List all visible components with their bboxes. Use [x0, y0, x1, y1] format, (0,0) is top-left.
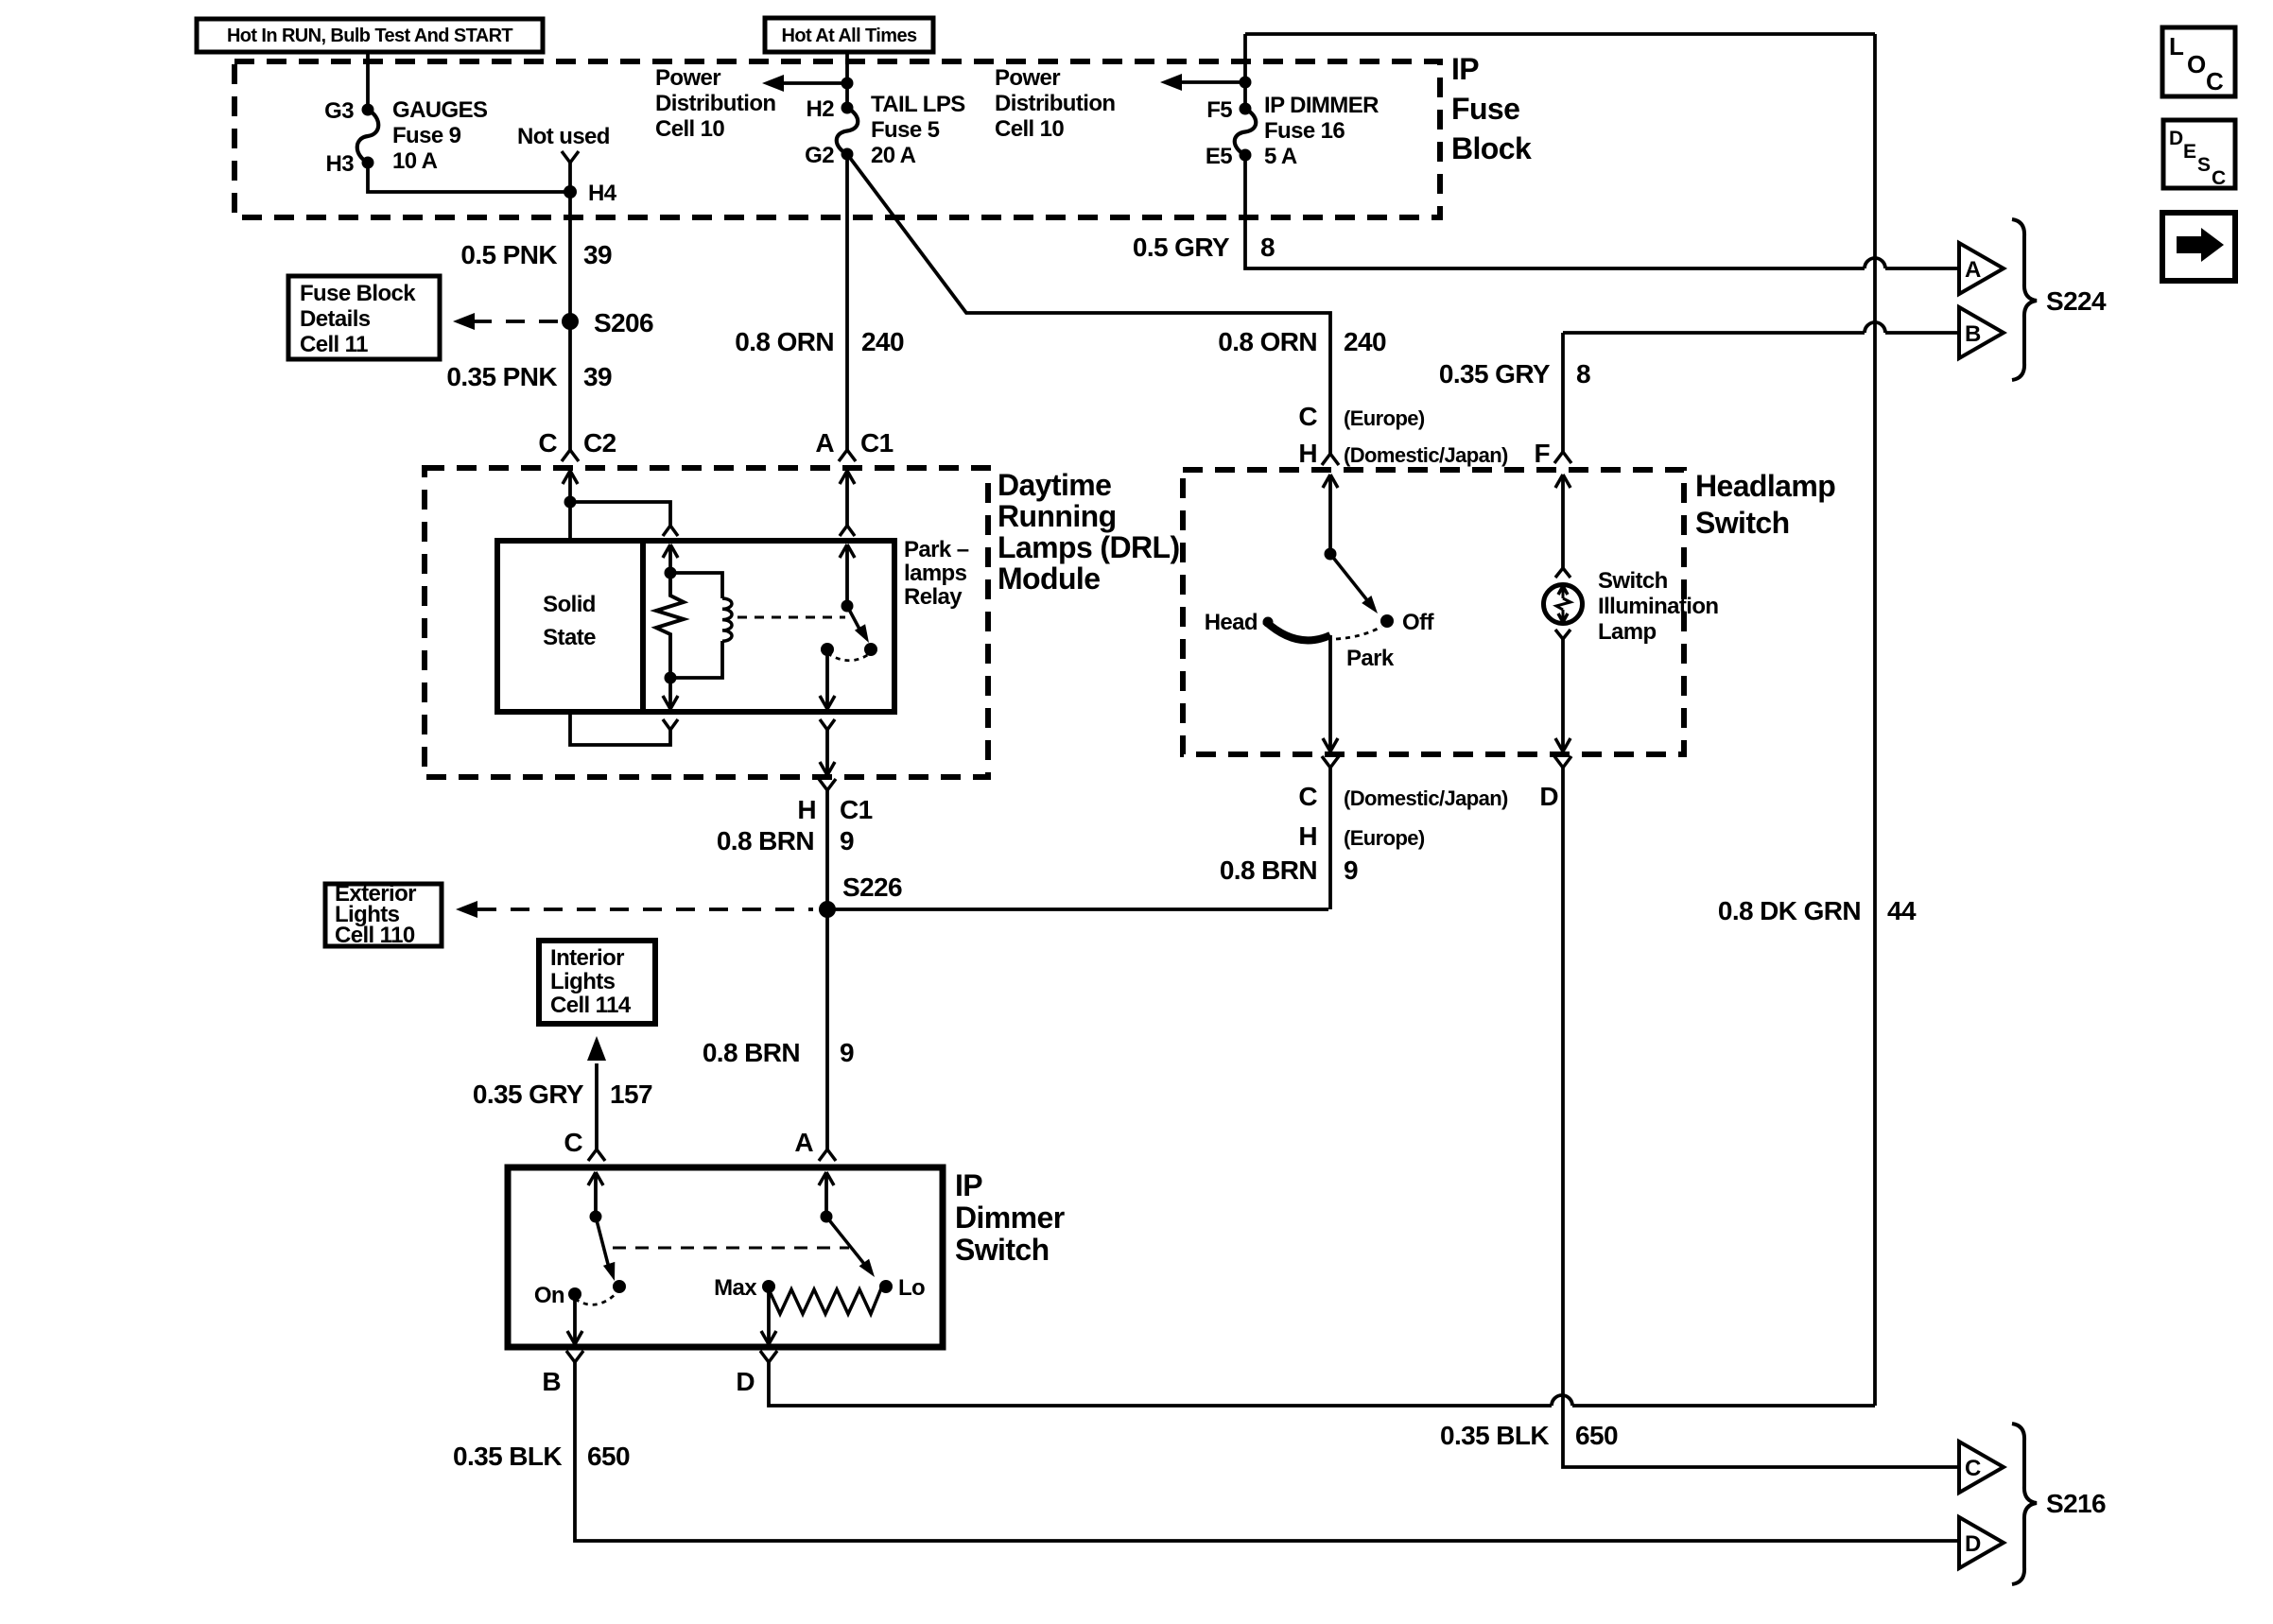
svg-text:650: 650	[587, 1442, 630, 1471]
svg-text:H: H	[1298, 821, 1317, 851]
svg-text:0.8 DK GRN: 0.8 DK GRN	[1718, 896, 1861, 925]
svg-text:Lamp: Lamp	[1598, 619, 1657, 645]
svg-text:Max: Max	[714, 1275, 757, 1301]
svg-text:Cell 11: Cell 11	[300, 332, 368, 357]
svg-text:Power: Power	[655, 65, 720, 91]
svg-text:C: C	[1965, 1456, 1981, 1481]
svg-text:9: 9	[840, 826, 854, 855]
svg-text:B: B	[542, 1367, 561, 1396]
svg-text:C: C	[564, 1128, 582, 1157]
svg-text:GAUGES: GAUGES	[392, 97, 488, 123]
svg-text:Switch: Switch	[1695, 506, 1790, 540]
svg-text:H2: H2	[807, 96, 835, 122]
svg-text:Cell 110: Cell 110	[335, 923, 415, 948]
svg-text:lamps: lamps	[904, 561, 967, 586]
svg-text:0.35 PNK: 0.35 PNK	[446, 362, 557, 391]
svg-text:F5: F5	[1206, 97, 1232, 123]
svg-text:Hot At All Times: Hot At All Times	[781, 26, 916, 46]
svg-text:Solid: Solid	[543, 592, 596, 617]
svg-text:Details: Details	[300, 306, 371, 332]
svg-text:L: L	[2169, 32, 2184, 60]
svg-text:S226: S226	[842, 872, 902, 902]
svg-text:Park –: Park –	[904, 537, 969, 562]
svg-text:240: 240	[861, 327, 904, 356]
svg-text:0.8 BRN: 0.8 BRN	[703, 1038, 800, 1067]
svg-text:H: H	[797, 795, 816, 824]
svg-text:Cell 114: Cell 114	[550, 993, 632, 1018]
svg-text:C: C	[1298, 782, 1317, 811]
svg-text:Daytime: Daytime	[998, 468, 1111, 502]
svg-text:Cell 10: Cell 10	[655, 116, 724, 142]
svg-text:10 A: 10 A	[392, 148, 438, 174]
svg-text:Block: Block	[1451, 131, 1532, 165]
svg-text:157: 157	[610, 1080, 652, 1109]
svg-text:IP: IP	[1451, 52, 1479, 86]
svg-text:Not used: Not used	[517, 124, 610, 149]
svg-text:A: A	[815, 428, 834, 458]
svg-text:Fuse: Fuse	[1451, 92, 1519, 126]
svg-text:C: C	[2206, 67, 2224, 95]
svg-text:9: 9	[1344, 855, 1358, 885]
svg-text:Relay: Relay	[904, 584, 963, 610]
svg-text:Lamps (DRL): Lamps (DRL)	[998, 530, 1180, 564]
svg-text:C: C	[1298, 402, 1317, 431]
svg-text:G3: G3	[324, 98, 354, 124]
svg-text:C1: C1	[860, 428, 894, 458]
svg-text:8: 8	[1576, 359, 1590, 389]
svg-text:0.8 ORN: 0.8 ORN	[735, 327, 834, 356]
svg-text:Switch: Switch	[1598, 568, 1668, 594]
svg-text:Cell 10: Cell 10	[995, 116, 1064, 142]
svg-text:Lights: Lights	[550, 969, 616, 994]
svg-text:O: O	[2187, 50, 2206, 78]
svg-text:Distribution: Distribution	[655, 91, 775, 116]
svg-text:D: D	[1965, 1531, 1981, 1557]
svg-text:C: C	[538, 428, 557, 458]
svg-text:Power: Power	[995, 65, 1060, 91]
svg-text:D: D	[1539, 782, 1558, 811]
svg-text:0.8 BRN: 0.8 BRN	[1220, 855, 1317, 885]
svg-text:39: 39	[583, 240, 612, 269]
svg-text:9: 9	[840, 1038, 854, 1067]
svg-text:S206: S206	[594, 308, 653, 337]
svg-text:State: State	[543, 625, 596, 650]
svg-text:0.8 ORN: 0.8 ORN	[1218, 327, 1317, 356]
svg-text:20 A: 20 A	[871, 143, 916, 168]
svg-text:(Domestic/Japan): (Domestic/Japan)	[1344, 443, 1508, 467]
svg-text:Hot In RUN, Bulb Test And STAR: Hot In RUN, Bulb Test And START	[227, 26, 512, 46]
svg-text:D: D	[2169, 128, 2183, 149]
svg-text:0.35 GRY: 0.35 GRY	[1439, 359, 1551, 389]
svg-text:TAIL LPS: TAIL LPS	[871, 92, 965, 117]
svg-text:H4: H4	[588, 181, 617, 206]
svg-text:(Europe): (Europe)	[1344, 406, 1425, 430]
svg-text:Interior: Interior	[550, 945, 624, 971]
svg-text:Fuse Block: Fuse Block	[300, 281, 416, 306]
svg-text:Distribution: Distribution	[995, 91, 1115, 116]
svg-text:0.35 BLK: 0.35 BLK	[453, 1442, 562, 1471]
svg-text:S224: S224	[2046, 286, 2107, 316]
svg-text:A: A	[794, 1128, 813, 1157]
svg-text:240: 240	[1344, 327, 1386, 356]
svg-text:IP DIMMER: IP DIMMER	[1264, 93, 1379, 118]
svg-text:E: E	[2183, 141, 2196, 163]
svg-text:44: 44	[1887, 896, 1917, 925]
svg-text:(Domestic/Japan): (Domestic/Japan)	[1344, 786, 1508, 810]
svg-text:On: On	[534, 1283, 564, 1308]
svg-text:0.8 BRN: 0.8 BRN	[717, 826, 814, 855]
svg-text:C2: C2	[583, 428, 616, 458]
svg-text:IP: IP	[955, 1168, 982, 1202]
svg-text:0.5 GRY: 0.5 GRY	[1133, 233, 1230, 262]
svg-text:0.35 GRY: 0.35 GRY	[473, 1080, 584, 1109]
svg-text:Headlamp: Headlamp	[1695, 469, 1835, 503]
svg-text:(Europe): (Europe)	[1344, 826, 1425, 850]
svg-text:650: 650	[1575, 1421, 1618, 1450]
svg-text:Off: Off	[1402, 610, 1434, 635]
svg-text:S216: S216	[2046, 1489, 2106, 1518]
svg-text:Fuse 5: Fuse 5	[871, 117, 940, 143]
svg-text:Lo: Lo	[898, 1275, 925, 1301]
svg-text:C: C	[2212, 167, 2226, 189]
svg-text:Head: Head	[1205, 610, 1258, 635]
svg-text:E5: E5	[1206, 144, 1232, 169]
svg-text:H: H	[1298, 439, 1317, 468]
svg-text:D: D	[736, 1367, 755, 1396]
svg-text:Illumination: Illumination	[1598, 594, 1718, 619]
svg-text:8: 8	[1260, 233, 1275, 262]
svg-text:F: F	[1534, 439, 1550, 468]
svg-text:Module: Module	[998, 561, 1100, 596]
svg-text:Running: Running	[998, 499, 1117, 533]
svg-text:Switch: Switch	[955, 1233, 1050, 1267]
svg-text:Park: Park	[1346, 646, 1395, 671]
svg-text:5 A: 5 A	[1264, 144, 1297, 169]
svg-text:0.35 BLK: 0.35 BLK	[1440, 1421, 1549, 1450]
svg-text:39: 39	[583, 362, 612, 391]
svg-text:C1: C1	[840, 795, 873, 824]
svg-text:Fuse 9: Fuse 9	[392, 123, 461, 148]
svg-text:S: S	[2197, 154, 2211, 176]
svg-text:0.5 PNK: 0.5 PNK	[460, 240, 557, 269]
svg-text:G2: G2	[805, 143, 834, 168]
svg-text:A: A	[1965, 257, 1981, 283]
svg-text:Fuse 16: Fuse 16	[1264, 118, 1345, 144]
svg-text:Dimmer: Dimmer	[955, 1201, 1065, 1235]
svg-text:H3: H3	[326, 151, 355, 177]
svg-text:B: B	[1965, 321, 1981, 347]
